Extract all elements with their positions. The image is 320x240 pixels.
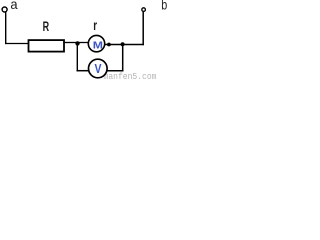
wire: left horizontal to R [5, 43, 29, 45]
junction dot at M right terminal [107, 43, 111, 47]
svg-text:manfen5.com: manfen5.com [104, 72, 157, 80]
svg-text:r: r [93, 18, 97, 33]
wire: a terminal down [5, 12, 7, 44]
wire: R box to junction [64, 42, 76, 44]
wire: V branch bottom left horizontal [77, 70, 89, 72]
svg-text:b: b [161, 0, 167, 13]
wire: M to b corner [105, 44, 144, 46]
wire: V branch left vertical [76, 43, 78, 71]
terminal b [142, 8, 146, 12]
wire: junction to motor M [78, 42, 89, 44]
wire: vertical up to terminal b [142, 12, 144, 46]
voltmeter V circle [89, 59, 108, 78]
background [0, 0, 170, 80]
wire: V branch bottom right horizontal [107, 70, 124, 72]
svg-text:R: R [43, 19, 50, 34]
terminal a [2, 7, 7, 12]
svg-text:V: V [95, 62, 103, 76]
junction node dot left [75, 41, 79, 45]
motor M circle [88, 35, 104, 51]
resistor R1 box [29, 40, 65, 52]
svg-text:M: M [93, 40, 103, 52]
wire: V branch right vertical [122, 44, 124, 71]
junction node dot right (V branch top) [121, 42, 125, 46]
svg-text:a: a [10, 0, 17, 12]
